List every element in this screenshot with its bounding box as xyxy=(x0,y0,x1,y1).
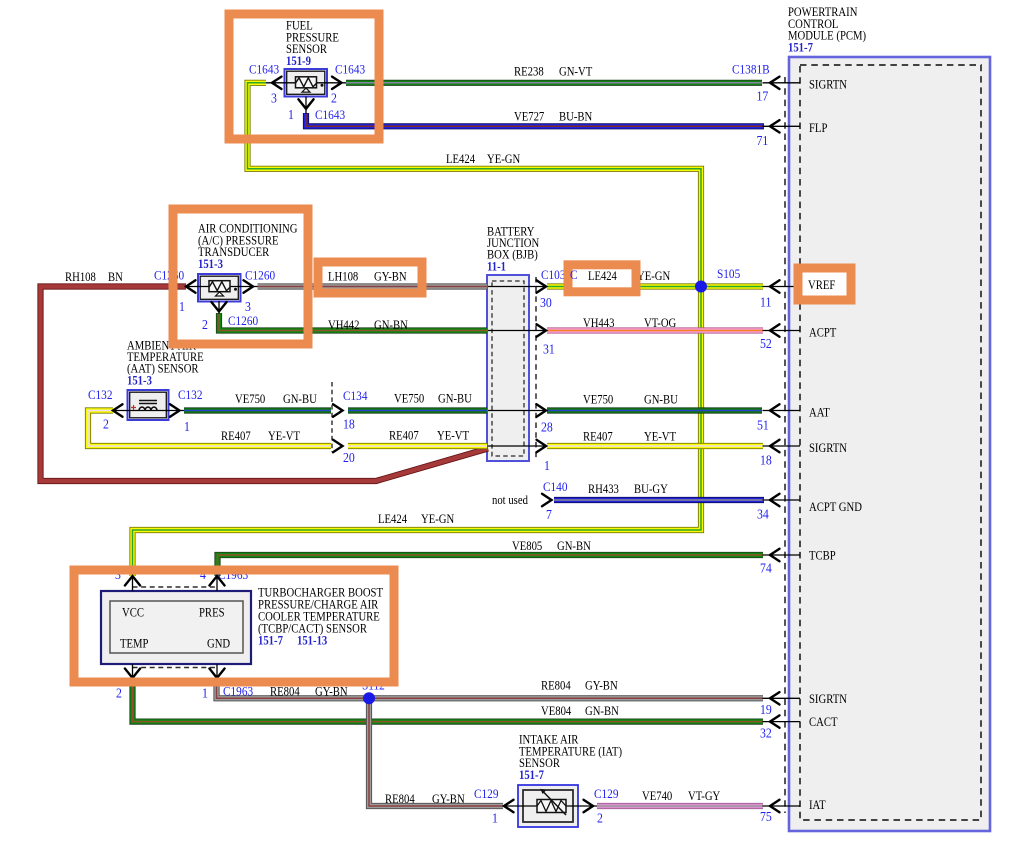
arrows at BJB outputs xyxy=(537,280,547,452)
label VE804 GN-BN xyxy=(541,705,619,718)
label C140 xyxy=(543,479,567,494)
FPS labels xyxy=(249,20,365,122)
wire VE805 GN-BN xyxy=(218,555,764,576)
svg-text:LE424: LE424 xyxy=(446,153,475,166)
svg-text:151-7: 151-7 xyxy=(519,769,544,782)
svg-text:SIGRTN: SIGRTN xyxy=(809,79,848,92)
wire VE804 GN-BN xyxy=(133,678,764,722)
highlight box around A/C transducer xyxy=(173,209,308,344)
svg-text:20: 20 xyxy=(343,450,355,465)
svg-text:RE804: RE804 xyxy=(270,686,300,699)
label RE407 YE-VT b xyxy=(389,430,469,443)
wire VH443 VT-OG xyxy=(547,327,763,333)
svg-text:1: 1 xyxy=(202,686,208,701)
svg-text:FLP: FLP xyxy=(809,122,827,135)
svg-text:VT-OG: VT-OG xyxy=(644,317,676,330)
wire VE750 GN-BU BJB to PCM xyxy=(547,407,762,413)
highlight box around TCBP sensor xyxy=(74,570,394,682)
svg-text:YE-GN: YE-GN xyxy=(637,270,671,283)
label C1381B xyxy=(732,62,770,77)
svg-text:151-3: 151-3 xyxy=(198,258,223,271)
svg-text:31: 31 xyxy=(543,342,555,357)
svg-text:C129: C129 xyxy=(594,786,618,801)
svg-text:151-7: 151-7 xyxy=(258,635,283,648)
label YE-GN mid (partly under highlight) xyxy=(637,270,671,283)
A/C pin arrows xyxy=(186,280,253,311)
svg-text:151-7: 151-7 xyxy=(788,42,813,55)
svg-text:TCBP: TCBP xyxy=(809,550,836,563)
label LE424 YE-GN top xyxy=(446,153,521,166)
svg-text:LE424: LE424 xyxy=(588,270,617,283)
svg-text:VE750: VE750 xyxy=(583,394,614,407)
wire LE424 YE-GN long run xyxy=(133,83,702,576)
svg-text:TEMP: TEMP xyxy=(120,638,149,651)
svg-text:VE804: VE804 xyxy=(541,705,572,718)
sensor AAT ambient air temperature box xyxy=(128,390,169,420)
sensor A/C pressure transducer box xyxy=(198,274,241,302)
black pin leads at PCM xyxy=(763,83,801,806)
svg-text:C1643: C1643 xyxy=(335,62,365,77)
label VE750 GN-BU c xyxy=(583,394,678,407)
wire LE424 YE-GN BJB to PCM VREF xyxy=(547,283,763,289)
svg-text:GY-BN: GY-BN xyxy=(432,793,465,806)
svg-text:C132: C132 xyxy=(88,387,112,402)
AAT pin arrows xyxy=(113,404,180,416)
svg-text:75: 75 xyxy=(760,809,772,824)
svg-text:VE805: VE805 xyxy=(512,540,543,553)
AAT through lead xyxy=(113,410,184,412)
svg-text:TURBOCHARGER BOOST: TURBOCHARGER BOOST xyxy=(258,587,383,600)
TCBP pin leads xyxy=(133,577,218,677)
svg-text:COOLER TEMPERATURE: COOLER TEMPERATURE xyxy=(258,611,380,624)
svg-text:LE424: LE424 xyxy=(378,513,407,526)
label RE407 YE-VT a xyxy=(221,430,300,443)
svg-text:2: 2 xyxy=(202,317,208,332)
label VE750 GN-BU b xyxy=(394,393,472,406)
connector C1381B dashed boundary line at PCM xyxy=(784,77,786,813)
svg-text:GN-BU: GN-BU xyxy=(644,394,678,407)
svg-text:74: 74 xyxy=(760,561,772,576)
BJB title text xyxy=(487,226,540,274)
IAT through lead xyxy=(504,805,597,807)
svg-text:VE750: VE750 xyxy=(235,393,266,406)
svg-text:C1381B: C1381B xyxy=(732,62,770,77)
svg-text:RE804: RE804 xyxy=(541,680,571,693)
label C and LE424 redrawn over highlight xyxy=(570,267,617,283)
svg-text:RE407: RE407 xyxy=(221,430,251,443)
svg-text:RH433: RH433 xyxy=(588,483,619,496)
svg-text:C140: C140 xyxy=(543,479,567,494)
svg-text:C129: C129 xyxy=(474,786,498,801)
sensor TCBP/CACT turbocharger boost box xyxy=(101,591,251,664)
svg-text:C1643: C1643 xyxy=(249,62,279,77)
FPS pin arrows xyxy=(272,77,342,109)
label RH108 BN xyxy=(65,271,123,284)
svg-text:3: 3 xyxy=(245,299,251,314)
label RH433 BU-GY xyxy=(588,483,668,496)
FPS through lead xyxy=(266,83,346,114)
svg-text:C134: C134 xyxy=(343,388,367,403)
wire RH433 BU-GY xyxy=(554,497,764,503)
svg-text:YE-VT: YE-VT xyxy=(268,430,300,443)
svg-text:VT-GY: VT-GY xyxy=(688,790,721,803)
svg-text:GND: GND xyxy=(207,638,230,651)
label RE238 GN-VT xyxy=(514,66,592,79)
label C134 xyxy=(343,388,367,403)
svg-text:19: 19 xyxy=(760,702,772,717)
svg-text:YE-VT: YE-VT xyxy=(437,430,469,443)
svg-text:RE407: RE407 xyxy=(389,430,419,443)
svg-text:VE750: VE750 xyxy=(394,393,425,406)
AAT labels xyxy=(88,340,204,434)
A/C labels xyxy=(154,223,297,332)
svg-text:1: 1 xyxy=(184,419,190,434)
TCBP connector dashed lines xyxy=(133,587,218,668)
svg-text:GY-BN: GY-BN xyxy=(374,271,407,284)
wire RE407 YE-VT BJB to PCM xyxy=(547,443,763,449)
svg-text:ACPT: ACPT xyxy=(809,327,836,340)
wire VE727 BU-BN xyxy=(306,113,764,126)
svg-text:2: 2 xyxy=(103,417,109,432)
label VH443 VT-OG xyxy=(583,317,676,330)
pin name VREF xyxy=(808,279,835,292)
TCBP labels xyxy=(115,567,383,700)
wire LH108 GY-BN xyxy=(258,283,488,289)
svg-text:32: 32 xyxy=(760,726,772,741)
IAT symbol xyxy=(537,789,566,815)
svg-text:VE740: VE740 xyxy=(642,790,673,803)
svg-text:SIGRTN: SIGRTN xyxy=(809,442,848,455)
svg-text:GN-BN: GN-BN xyxy=(374,319,408,332)
svg-text:YE-GN: YE-GN xyxy=(421,513,455,526)
svg-text:151-13: 151-13 xyxy=(297,635,328,648)
PCM title text xyxy=(788,6,866,54)
wire RE407 YE-VT right of C134 xyxy=(348,443,487,449)
svg-text:GN-BN: GN-BN xyxy=(557,540,591,553)
svg-text:IAT: IAT xyxy=(809,799,826,812)
svg-text:2: 2 xyxy=(116,686,122,701)
black leads through BJB xyxy=(488,287,546,447)
connector C103 dashed boundary line at BJB xyxy=(535,277,537,461)
IAT labels xyxy=(474,734,622,826)
arrows at PCM pins xyxy=(770,77,780,813)
svg-text:not used: not used xyxy=(492,494,528,507)
svg-text:17: 17 xyxy=(756,89,768,104)
svg-text:GN-VT: GN-VT xyxy=(559,66,592,79)
label not used xyxy=(492,494,528,507)
svg-text:CACT: CACT xyxy=(809,716,838,729)
svg-text:1: 1 xyxy=(288,107,294,122)
svg-text:11: 11 xyxy=(760,295,771,310)
svg-text:AAT: AAT xyxy=(809,407,830,420)
wire RE238 GN-VT xyxy=(346,80,762,86)
IAT pin arrows xyxy=(504,800,593,812)
svg-text:RH108: RH108 xyxy=(65,271,96,284)
svg-text:YE-VT: YE-VT xyxy=(644,431,676,444)
svg-text:71: 71 xyxy=(756,133,768,148)
svg-text:GY-BN: GY-BN xyxy=(315,686,348,699)
label RE804 GY-BN at IAT xyxy=(385,793,465,806)
svg-text:BU-GY: BU-GY xyxy=(634,483,668,496)
svg-text:SIGRTN: SIGRTN xyxy=(809,693,848,706)
sensor FPS fuel pressure sensor box xyxy=(285,69,328,97)
label RE407 YE-VT c xyxy=(583,431,676,444)
svg-text:ACPT GND: ACPT GND xyxy=(809,501,862,514)
svg-text:VH443: VH443 xyxy=(583,317,615,330)
label C103 xyxy=(541,267,565,282)
pin 18 20 at C134 xyxy=(343,417,355,465)
svg-text:RE804: RE804 xyxy=(385,793,415,806)
wire VE750 GN-BU left of C134 xyxy=(184,407,331,413)
svg-text:28: 28 xyxy=(541,420,553,435)
svg-text:C132: C132 xyxy=(178,387,202,402)
splice S112 xyxy=(363,692,375,704)
splice S105 xyxy=(695,281,707,293)
svg-text:C1643: C1643 xyxy=(315,107,345,122)
svg-text:S105: S105 xyxy=(717,266,740,281)
svg-text:VREF: VREF xyxy=(808,279,835,292)
label VE750 GN-BU a xyxy=(235,393,317,406)
svg-text:1: 1 xyxy=(179,299,185,314)
wire RE804 GY-BN branch to IAT xyxy=(369,698,503,806)
FPS symbol xyxy=(296,77,324,92)
svg-text:11-1: 11-1 xyxy=(487,261,506,274)
highlight box around fuel pressure sensor xyxy=(229,14,379,139)
svg-text:C1260: C1260 xyxy=(228,313,258,328)
pin numbers at PCM xyxy=(756,89,772,824)
ECU module PCM (Powertrain Control Module) box xyxy=(789,57,990,831)
svg-text:GN-BU: GN-BU xyxy=(438,393,472,406)
svg-text:LH108: LH108 xyxy=(328,271,359,284)
svg-text:7: 7 xyxy=(546,507,552,522)
svg-text:34: 34 xyxy=(757,507,769,522)
svg-text:C: C xyxy=(570,267,578,282)
svg-text:C103: C103 xyxy=(541,267,565,282)
arrows at C134 xyxy=(333,404,343,452)
inline connector C134 dashed line xyxy=(331,382,333,452)
highlight box around LE424 label xyxy=(568,265,636,292)
svg-text:3: 3 xyxy=(271,91,277,106)
pin names at PCM xyxy=(809,79,862,812)
pins at BJB xyxy=(540,295,555,522)
svg-text:18: 18 xyxy=(343,417,355,432)
svg-text:BU-BN: BU-BN xyxy=(559,111,593,124)
svg-text:PRESSURE/CHARGE AIR: PRESSURE/CHARGE AIR xyxy=(258,599,379,612)
svg-text:30: 30 xyxy=(540,295,552,310)
A/C through lead xyxy=(186,287,258,315)
wire VE740 VT-GY xyxy=(597,803,763,809)
svg-text:151-9: 151-9 xyxy=(286,55,311,68)
svg-text:RE238: RE238 xyxy=(514,66,544,79)
label RE804 GY-BN right xyxy=(541,680,618,693)
svg-text:GN-BU: GN-BU xyxy=(283,393,317,406)
svg-text:151-3: 151-3 xyxy=(127,375,152,388)
svg-text:(TCBP/CACT) SENSOR: (TCBP/CACT) SENSOR xyxy=(258,623,367,636)
TCBP pin arrows xyxy=(125,576,225,678)
label VE805 GN-BN xyxy=(512,540,591,553)
label S105 xyxy=(717,266,740,281)
label LH108 GY-BN xyxy=(328,271,407,284)
svg-text:VH442: VH442 xyxy=(328,319,360,332)
wire RE407 YE-VT left of C134 xyxy=(88,411,331,447)
highlight box around LH108 label xyxy=(318,262,422,293)
arrow C140 not used xyxy=(542,494,552,506)
AAT symbol xyxy=(131,401,157,411)
svg-text:1: 1 xyxy=(492,811,498,826)
svg-text:GY-BN: GY-BN xyxy=(585,680,618,693)
label VE727 BU-BN xyxy=(514,111,593,124)
wire VH442 GN-BN xyxy=(219,313,487,331)
svg-text:18: 18 xyxy=(760,453,772,468)
svg-text:52: 52 xyxy=(760,336,772,351)
svg-text:51: 51 xyxy=(757,418,769,433)
svg-text:BN: BN xyxy=(108,271,123,284)
wire VE750 GN-BU right of C134 xyxy=(348,407,487,413)
svg-text:RE407: RE407 xyxy=(583,431,613,444)
label LE424 YE-GN low xyxy=(378,513,455,526)
svg-text:GN-BN: GN-BN xyxy=(585,705,619,718)
svg-text:PRES: PRES xyxy=(199,607,225,620)
highlight box around VREF xyxy=(798,268,851,300)
label RE804 GY-BN mid xyxy=(270,686,348,699)
svg-text:2: 2 xyxy=(597,811,603,826)
svg-text:2: 2 xyxy=(331,91,337,106)
A/C symbol xyxy=(209,281,237,296)
wire RE804 GY-BN horizontal xyxy=(217,678,764,698)
wire RH108 BN xyxy=(41,287,489,482)
svg-text:C1260: C1260 xyxy=(245,268,275,283)
sensor IAT intake air temperature box xyxy=(518,785,578,827)
label VH442 GN-BN xyxy=(328,319,408,332)
junction box BJB (Battery Junction Box) xyxy=(487,275,529,461)
label VE740 VT-GY xyxy=(642,790,721,803)
label S112 xyxy=(362,678,385,693)
svg-text:VE727: VE727 xyxy=(514,111,545,124)
svg-text:1: 1 xyxy=(544,458,550,473)
svg-text:VCC: VCC xyxy=(122,607,144,620)
svg-text:YE-GN: YE-GN xyxy=(487,153,521,166)
